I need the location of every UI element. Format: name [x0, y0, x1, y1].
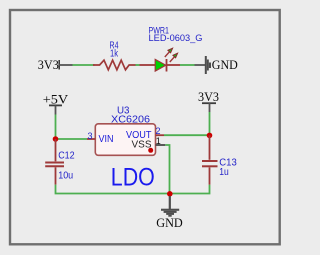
wire LED to GND	[180, 64, 195, 66]
ground GND (top-right net flag)	[195, 56, 238, 74]
pin 1 VSS	[156, 136, 166, 146]
svg-text:10u: 10u	[58, 170, 73, 181]
wire R4 to LED	[136, 64, 140, 66]
svg-text:3V3: 3V3	[38, 57, 59, 72]
node 3V3 (bottom-right net flag)	[198, 89, 219, 112]
pin 3 VIN	[87, 131, 95, 141]
resistor R4	[93, 41, 136, 70]
svg-text:1k: 1k	[110, 49, 119, 60]
ground GND (bottom flag)	[156, 196, 183, 230]
svg-text:C12: C12	[58, 150, 75, 161]
svg-text:GND: GND	[212, 57, 238, 72]
wire +5V down to junction	[55, 115, 57, 140]
svg-text:XC6206: XC6206	[111, 115, 150, 126]
regulator U3 XC6206 body	[95, 105, 155, 155]
wire 3V3 flag down to junction	[209, 112, 211, 135]
svg-text:3: 3	[87, 131, 92, 141]
capacitor C12	[45, 139, 75, 185]
svg-text:LDO: LDO	[111, 163, 155, 191]
node junction VSS/rail/GND	[167, 191, 173, 197]
wire C12 to rail	[56, 185, 170, 194]
svg-text:1: 1	[156, 136, 161, 146]
svg-text:2: 2	[155, 126, 160, 136]
wire VSS down to bottom rail	[165, 145, 169, 194]
svg-text:LED-0603_G: LED-0603_G	[149, 33, 203, 43]
capacitor C13	[202, 135, 237, 184]
node 3V3 (top-left net flag)	[38, 57, 73, 72]
node +5V (power flag)	[43, 91, 69, 114]
svg-text:VIN: VIN	[99, 133, 114, 145]
pin 2 VOUT	[155, 126, 164, 136]
wire rail right section	[170, 185, 210, 194]
svg-text:1u: 1u	[219, 167, 229, 178]
node junction VOUT/3V3/C13	[207, 133, 213, 139]
svg-text:3V3: 3V3	[198, 89, 219, 104]
LED PWR1	[140, 26, 203, 72]
wire VOUT to 3V3 junction	[164, 134, 210, 136]
node junction +5V/C12/VIN	[53, 136, 59, 142]
svg-text:GND: GND	[156, 215, 183, 230]
wire 3V3 to R4	[73, 64, 95, 66]
svg-text:+5V: +5V	[43, 91, 69, 106]
wire junction to VIN	[56, 138, 88, 140]
